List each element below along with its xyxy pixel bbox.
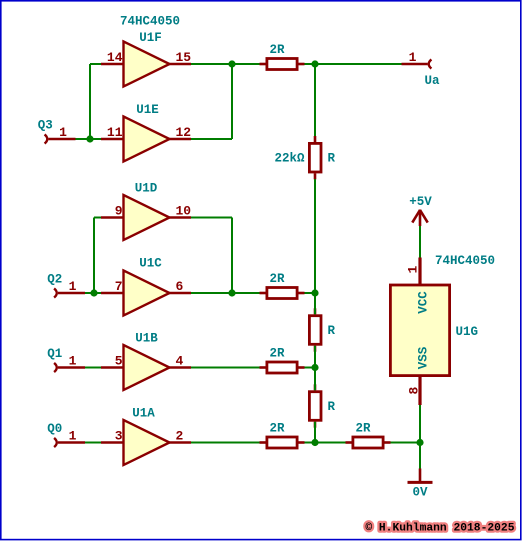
wire Q1 pin to U1B input — [85, 367, 101, 369]
resistor 2R (row 4) (2R) horizontal at row y=293 — [260, 272, 305, 299]
junction ladder end at U1G VSS — [416, 439, 423, 446]
svg-text:4: 4 — [176, 354, 184, 369]
wire Q2 pin to U1C input — [85, 292, 101, 294]
svg-text:R: R — [328, 324, 336, 338]
wire U1G VSS to ground — [419, 405, 421, 469]
wire ladder row1 down to R 22k — [314, 64, 316, 136]
pin 5 (input) of U1B — [101, 354, 124, 369]
svg-text:14: 14 — [107, 50, 123, 65]
wire ladder to 2R row6 right — [315, 442, 346, 444]
pin 14 (input) of U1F — [101, 50, 124, 65]
svg-text:1: 1 — [409, 50, 417, 65]
wire +5V to U1G VCC pin — [419, 226, 421, 259]
buffer U1B — [124, 332, 170, 391]
wire to U1D pin 9 — [94, 217, 101, 219]
pin 2 (output) of U1A — [170, 429, 192, 444]
wire R 22k down to row4 — [314, 179, 316, 293]
wire node Q3 up to U1F input — [89, 64, 91, 139]
wire to U1F pin 14 — [90, 63, 101, 65]
wire U1B output to resistor 2R row5 — [191, 367, 260, 369]
buffer U1F — [124, 31, 170, 87]
svg-text:R: R — [328, 152, 336, 166]
wire U1C output — [191, 292, 232, 294]
svg-text:U1A: U1A — [132, 407, 155, 421]
svg-text:22kΩ: 22kΩ — [274, 152, 305, 166]
ground 0V symbol — [408, 469, 433, 500]
buffer U1A — [124, 407, 170, 466]
junction U1F/U1E outputs — [228, 60, 235, 67]
connector Q0 (pin 1) — [47, 422, 85, 447]
svg-text:U1B: U1B — [135, 332, 158, 346]
svg-text:7: 7 — [115, 279, 123, 294]
copyright text — [365, 523, 514, 535]
wire 2R row4 to ladder — [305, 292, 316, 294]
pin 15 (output) of U1F — [170, 50, 192, 65]
svg-text:© H.Kuhlmann 2018-2025: © H.Kuhlmann 2018-2025 — [365, 523, 514, 535]
svg-text:Ua: Ua — [425, 74, 441, 88]
svg-text:74HC4050: 74HC4050 — [435, 254, 495, 268]
svg-text:8: 8 — [407, 387, 422, 395]
wire 2R row1 to ladder — [305, 63, 316, 65]
svg-text:1: 1 — [69, 354, 77, 369]
svg-text:+5V: +5V — [409, 195, 432, 209]
svg-text:1: 1 — [59, 125, 67, 140]
junction ladder row1 — [311, 60, 318, 67]
junction ladder row6 — [311, 439, 318, 446]
pin 4 (output) of U1B — [170, 354, 192, 369]
pin 9 (input) of U1D — [101, 204, 124, 219]
junction U1C/U1D outputs — [228, 289, 235, 296]
svg-text:U1D: U1D — [135, 182, 158, 196]
wire R to row5 — [314, 346, 316, 368]
wire U1A output to resistor 2R row6 — [191, 442, 260, 444]
junction at Q2 node — [90, 289, 97, 296]
svg-text:U1E: U1E — [136, 103, 159, 117]
pin 7 (input) of U1C — [101, 279, 124, 294]
pin 12 (output) of U1E — [170, 125, 192, 140]
svg-text:2R: 2R — [269, 422, 285, 436]
pin 1 (VCC) of U1G — [406, 258, 421, 286]
svg-text:R: R — [328, 400, 336, 414]
svg-text:6: 6 — [176, 279, 184, 294]
svg-text:2R: 2R — [269, 272, 285, 286]
power +5V supply symbol — [409, 195, 432, 226]
svg-text:U1C: U1C — [139, 257, 162, 271]
wire U1E output — [191, 138, 232, 140]
resistor 2R (row 5) (2R) horizontal at row y=367.5 — [260, 347, 305, 374]
resistor R (between row5 and row6) vertical at x=315 — [309, 384, 335, 427]
svg-text:1: 1 — [69, 279, 77, 294]
resistor 2R (MSB, row 1) (2R) horizontal at row y=64 — [260, 43, 305, 70]
wire U1F output to resistor 2R row1 — [191, 63, 260, 65]
pin 11 (input) of U1E — [101, 125, 124, 140]
resistor 2R (row 6, left) (2R) horizontal at row y=442.5 — [260, 422, 305, 449]
connector Q1 (pin 1) — [47, 347, 85, 372]
svg-text:15: 15 — [176, 50, 192, 65]
resistor 2R (row 6, right) (2R) horizontal at row y=442.5 — [346, 422, 391, 449]
svg-text:Q2: Q2 — [47, 273, 62, 287]
svg-text:VSS: VSS — [417, 346, 431, 369]
svg-text:2R: 2R — [269, 347, 285, 361]
pin 10 (output) of U1D — [170, 204, 192, 219]
junction ladder row5 — [311, 364, 318, 371]
wire U1D output — [191, 217, 232, 219]
wire 2R row5 to ladder — [305, 367, 316, 369]
connector Q2 (pin 1) — [47, 273, 85, 298]
buffer U1D — [124, 182, 170, 241]
svg-text:1: 1 — [69, 429, 77, 444]
resistor R (22 kOhm) vertical at x=315 — [274, 136, 335, 179]
wire ladder top to output Ua — [315, 63, 402, 65]
svg-text:Q0: Q0 — [47, 422, 62, 436]
svg-text:U1G: U1G — [456, 325, 479, 339]
wire U1E output up to row1 — [231, 64, 233, 139]
svg-text:Q1: Q1 — [47, 347, 62, 361]
junction at Q3 node — [86, 135, 93, 142]
svg-text:74HC4050: 74HC4050 — [120, 15, 180, 29]
svg-text:2: 2 — [176, 429, 184, 444]
wire 2R right to IC ground node — [391, 442, 421, 444]
buffer U1E — [124, 103, 170, 162]
junction ladder row4 — [311, 289, 318, 296]
svg-text:9: 9 — [115, 204, 123, 219]
svg-text:2R: 2R — [269, 43, 285, 57]
pin 8 (VSS) of U1G — [407, 376, 422, 405]
pin 3 (input) of U1A — [101, 429, 124, 444]
svg-text:VCC: VCC — [417, 291, 431, 314]
wire row4 to R — [314, 293, 316, 314]
svg-text:10: 10 — [176, 204, 192, 219]
connector Q3 (pin 1) — [38, 119, 76, 144]
svg-text:12: 12 — [176, 125, 192, 140]
wire row5 to R — [314, 368, 316, 391]
wire Q3 pin to U1E input — [76, 138, 102, 140]
connector Ua (pin 1, output) — [402, 50, 441, 88]
svg-text:5: 5 — [115, 354, 123, 369]
wire R to row6 — [314, 422, 316, 443]
svg-text:U1F: U1F — [139, 31, 162, 45]
svg-text:2R: 2R — [355, 422, 371, 436]
svg-text:Q3: Q3 — [38, 119, 53, 133]
label 74HC4050 (for U1G) — [435, 254, 495, 268]
buffer U1C — [124, 257, 170, 316]
svg-text:1: 1 — [406, 266, 421, 274]
resistor R (between row4 and row5) vertical at x=315 — [309, 308, 335, 351]
svg-text:3: 3 — [115, 429, 123, 444]
wire node Q2 up to U1D input — [93, 218, 95, 294]
svg-text:11: 11 — [107, 125, 123, 140]
pin 6 (output) of U1C — [170, 279, 192, 294]
wire to resistor 2R row4 — [232, 292, 260, 294]
svg-text:0V: 0V — [412, 486, 428, 500]
IC U1G (74HC4050 power pins) — [390, 285, 478, 376]
wire 2R row6 to ladder — [305, 442, 316, 444]
label 74HC4050 (top, for U1F/U1E group) — [120, 15, 180, 29]
wire Q0 pin to U1A input — [85, 442, 101, 444]
wire U1D output down to row4 — [231, 218, 233, 294]
